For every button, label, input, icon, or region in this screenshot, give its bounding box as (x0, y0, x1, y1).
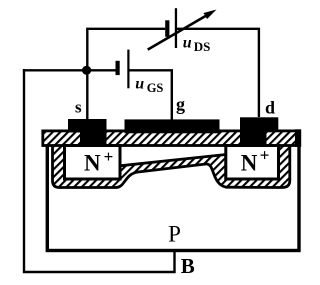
svg-text:d: d (265, 98, 275, 118)
svg-text:u: u (135, 75, 144, 92)
svg-text:DS: DS (194, 39, 211, 54)
svg-text:P: P (168, 222, 181, 247)
svg-text:N: N (84, 151, 101, 176)
svg-text:+: + (260, 146, 270, 165)
svg-text:+: + (104, 147, 114, 166)
svg-text:B: B (181, 254, 195, 278)
svg-text:u: u (183, 35, 192, 52)
svg-text:GS: GS (147, 81, 164, 95)
svg-text:g: g (176, 94, 185, 114)
svg-text:s: s (75, 97, 82, 116)
svg-text:N: N (241, 151, 258, 176)
